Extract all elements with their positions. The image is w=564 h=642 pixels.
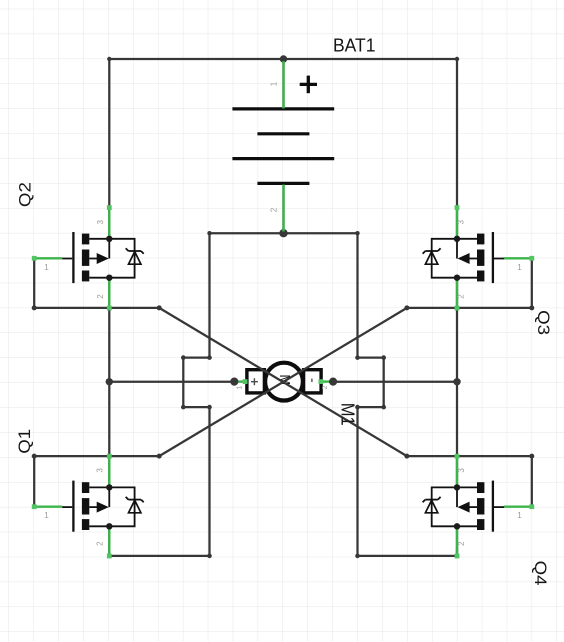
svg-text:3: 3 <box>95 468 104 473</box>
svg-text:BAT1: BAT1 <box>333 36 376 56</box>
svg-text:2: 2 <box>457 541 466 546</box>
svg-text:3: 3 <box>457 220 466 225</box>
svg-text:2: 2 <box>457 294 466 299</box>
svg-text:2: 2 <box>95 541 104 546</box>
svg-text:2: 2 <box>96 294 105 299</box>
svg-text:1: 1 <box>270 81 279 86</box>
svg-text:3: 3 <box>457 468 466 473</box>
svg-text:1: 1 <box>44 511 49 520</box>
svg-text:1: 1 <box>517 263 522 272</box>
svg-text:M1: M1 <box>338 403 358 426</box>
svg-text:1: 1 <box>517 511 522 520</box>
svg-text:Q3: Q3 <box>534 310 553 335</box>
svg-text:Q4: Q4 <box>531 561 550 586</box>
svg-text:3: 3 <box>96 220 105 225</box>
svg-text:Q1: Q1 <box>15 429 34 454</box>
svg-text:Q2: Q2 <box>15 182 34 207</box>
svg-text:2: 2 <box>270 207 279 212</box>
svg-text:1: 1 <box>237 385 244 389</box>
svg-text:2: 2 <box>322 385 329 389</box>
svg-text:1: 1 <box>44 263 49 272</box>
